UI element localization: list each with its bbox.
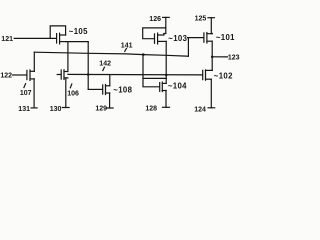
gate-drain loop of 103 bbox=[143, 28, 166, 39]
svg-text:123: 123 bbox=[228, 55, 240, 62]
svg-text:~104: ~104 bbox=[168, 81, 187, 90]
wire 105 source down to drain of 106 bbox=[67, 42, 69, 72]
wire 107 drain up to line 141 bbox=[33, 52, 35, 71]
wire x88 gate lead into 108 bbox=[88, 88, 102, 90]
svg-text:~103: ~103 bbox=[168, 34, 187, 43]
transistor 104 bbox=[160, 78, 167, 91]
svg-text:106: 106 bbox=[67, 90, 79, 97]
svg-text:128: 128 bbox=[145, 105, 157, 112]
wire 102 source down to terminal 124 bbox=[210, 79, 212, 108]
ground terminal 131 bbox=[31, 107, 37, 109]
gate-drain loop of 105 bbox=[50, 26, 65, 39]
svg-text:124: 124 bbox=[194, 106, 206, 113]
ground terminal 129 bbox=[106, 107, 113, 109]
junction dot line142 x166 bbox=[165, 74, 168, 77]
wire node x88 down to gate of 108 bbox=[87, 42, 89, 90]
junction dot line142 x88 bbox=[87, 73, 90, 76]
transistor 102 bbox=[203, 70, 213, 80]
svg-text:107: 107 bbox=[20, 90, 32, 97]
power terminal 125 bbox=[208, 18, 214, 34]
ground terminal 124 bbox=[208, 107, 215, 109]
transistor 107 bbox=[27, 70, 34, 80]
wire 105 source to node at x88 bbox=[66, 41, 89, 43]
line 142 bus bbox=[68, 73, 202, 76]
lead tick for 141 bbox=[125, 49, 127, 52]
svg-text:129: 129 bbox=[95, 106, 107, 113]
power terminal 126 bbox=[163, 17, 170, 33]
svg-text:130: 130 bbox=[50, 106, 62, 113]
svg-text:125: 125 bbox=[195, 16, 207, 23]
wire to output 123 bbox=[212, 56, 227, 58]
svg-text:~105: ~105 bbox=[69, 27, 88, 36]
wire gate bus down to line 141 end bbox=[187, 38, 189, 57]
wire 122 to gate of transistor 107 bbox=[13, 74, 27, 76]
junction dot line141 x143 bbox=[142, 53, 145, 56]
transistor 106 bbox=[57, 70, 68, 80]
wire gate bus 103/101 bbox=[188, 37, 204, 39]
wire 108 source down to terminal 129 bbox=[109, 93, 111, 108]
ground terminal 128 bbox=[163, 106, 170, 108]
svg-text:121: 121 bbox=[1, 36, 13, 43]
lead tick for 106 bbox=[70, 84, 72, 88]
wire 106 source down to terminal 130 bbox=[65, 78, 67, 108]
ground terminal 130 bbox=[62, 107, 69, 109]
loop top of 104 bbox=[143, 77, 166, 79]
wire 101 source down to node 123 and 102 drain bbox=[211, 41, 213, 70]
svg-text:142: 142 bbox=[99, 60, 111, 67]
lead tick for 142 bbox=[103, 67, 105, 70]
svg-text:122: 122 bbox=[0, 72, 12, 79]
gate-drain loop of 104 bbox=[143, 55, 159, 87]
lead tick for 107 bbox=[24, 84, 26, 88]
wire 121 to gate of transistor 105 bbox=[14, 37, 56, 39]
wire 103 source down through line 141 to loop of 104 bbox=[165, 41, 167, 78]
wire 104 source down to terminal 128 bbox=[165, 91, 167, 108]
junction dot node 123 bbox=[211, 56, 214, 59]
svg-text:131: 131 bbox=[18, 106, 30, 113]
transistor 101 bbox=[204, 33, 212, 44]
transistor 108 bbox=[103, 85, 110, 95]
wire 107 source down to terminal 131 bbox=[33, 79, 35, 108]
svg-text:~101: ~101 bbox=[216, 33, 235, 42]
svg-text:~108: ~108 bbox=[113, 86, 132, 95]
svg-text:~102: ~102 bbox=[214, 71, 233, 80]
transistor 105 bbox=[57, 33, 66, 44]
transistor 103 bbox=[155, 33, 167, 44]
wire 108 drain up to line 142 bbox=[109, 75, 111, 86]
line 141 bus bbox=[34, 52, 188, 56]
svg-text:126: 126 bbox=[149, 16, 161, 23]
